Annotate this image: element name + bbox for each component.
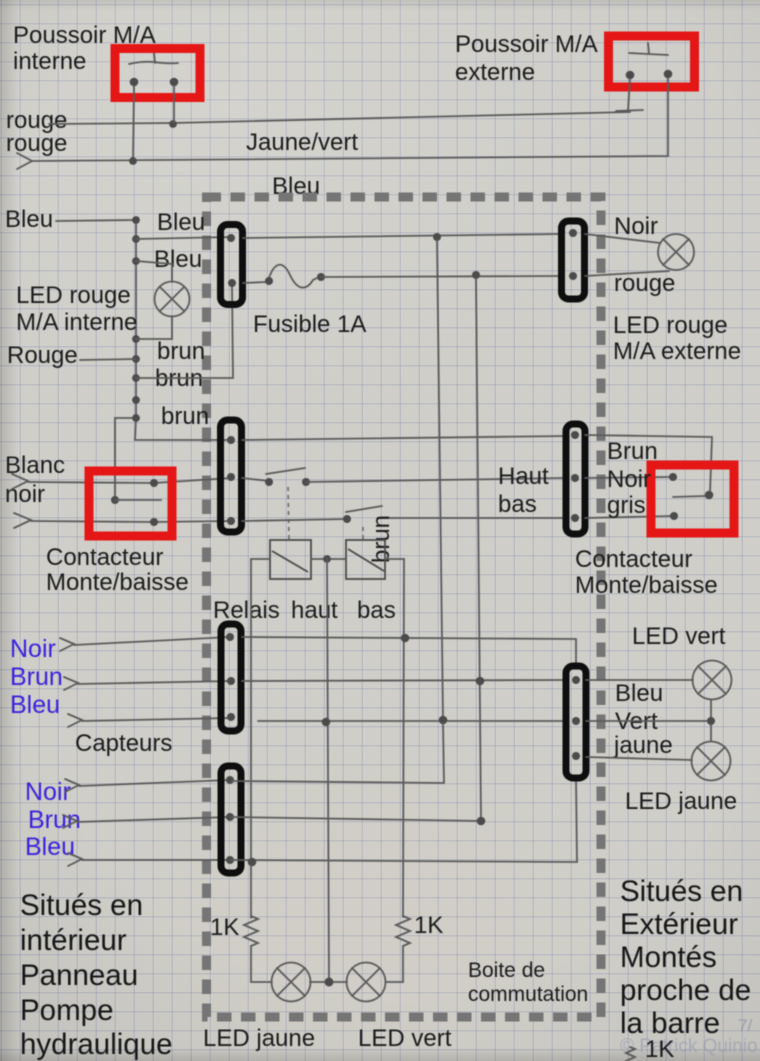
wire noir to contactor K1 and connector J3 pin3 (14, 513, 231, 528)
wire Blanc to contactor K1 and connector J3 pin2 (12, 474, 231, 489)
contactor K1 pin bottom (150, 518, 158, 526)
svg-text:jaune: jaune (613, 732, 673, 759)
svg-text:M/A interne: M/A interne (16, 309, 137, 336)
pin J7-2 (572, 717, 580, 725)
contactor K1 pin top (150, 479, 158, 487)
svg-text:Bleu: Bleu (615, 680, 663, 707)
label: LED rouge M/A interne (16, 282, 137, 336)
pin J3-2 (227, 473, 235, 481)
pushbutton S1 (interne) (129, 53, 178, 86)
connector J5 (lower left 1, 3 pins) (221, 624, 241, 731)
wire row: J3 pin2 to switch SW1 (242, 478, 269, 481)
pin J7-3 (572, 752, 580, 760)
svg-text:LED vert: LED vert (632, 623, 726, 650)
wire V1: vertical from top row to lower row (437, 240, 443, 719)
node V2 bottom (477, 817, 486, 826)
node fuse-row branch (vertical V1 top) (433, 233, 441, 241)
node fuse-row branch (vertical V2 top) (472, 271, 480, 279)
vertical bus wire left of connector J1 (115, 220, 231, 500)
lamp L2 LED rouge M/A externe (658, 234, 694, 270)
connector J4 (middle right, 3 pins) (566, 424, 585, 534)
svg-text:Contacteur: Contacteur (46, 544, 163, 571)
red highlight box around contactor K2 (651, 465, 734, 533)
svg-text:Bleu: Bleu (157, 209, 205, 236)
svg-text:Bleu: Bleu (154, 246, 202, 273)
wire row: to J7 pin2 (258, 720, 564, 722)
pin J4-2 (571, 474, 579, 482)
wire relay KA1 left pin down to 1K resistor R1 (251, 559, 270, 918)
wire J2 pin1 to lamp L2 (585, 234, 660, 243)
wire row: J5 pin2 over to J7 pin1 lower row (242, 680, 564, 681)
node bus lamp return (132, 335, 140, 343)
contactor K2 pin bottom (670, 512, 678, 520)
switch SW1 haut contacts (265, 468, 310, 486)
pin J2-2 (569, 272, 577, 280)
wire Rouge to bus (80, 359, 136, 360)
wire V2: vertical from fuse row to lower rows (476, 278, 481, 820)
svg-text:Noir: Noir (614, 213, 658, 240)
svg-text:LED rouge: LED rouge (16, 282, 131, 309)
red highlight box around contactor K1 (89, 471, 172, 536)
svg-text:Contacteur: Contacteur (575, 546, 692, 573)
svg-text:Brun: Brun (10, 663, 63, 691)
pin J1-2 (228, 279, 236, 287)
wire capteur1 Bleu to J5 pin3 (68, 714, 231, 727)
svg-text:rouge: rouge (6, 130, 67, 157)
node on wire rouge at S1 right pin (169, 120, 177, 128)
wire relay KA1/KA2 joint pin down the middle (311, 555, 346, 981)
pin J2-1 (569, 229, 577, 237)
svg-text:Rouge: Rouge (7, 342, 78, 369)
node bus top (132, 216, 140, 224)
svg-text:interne: interne (13, 48, 86, 75)
svg-text:1K: 1K (210, 914, 239, 941)
contactor K1 common pin and wire (111, 496, 161, 504)
svg-text:Jaune/vert: Jaune/vert (246, 129, 358, 156)
svg-text:7/: 7/ (738, 1016, 752, 1035)
label: Contacteur Monte/baisse (left) (46, 544, 189, 596)
wire J4 pin2 to contactor K2 top pin (585, 477, 673, 478)
wire J4 pin1 right and down to contactor K2 (585, 435, 712, 493)
wire SW1 to J4 pin2 (306, 478, 565, 482)
wire relay KA2 right pin down to 1K resistor R2 (385, 559, 404, 917)
svg-text:haut: haut (291, 597, 338, 624)
relay KA2 bas (346, 540, 385, 579)
mechanical link SW1 to relay KA1 (288, 487, 289, 540)
wire segment S1 left pin down (133, 86, 134, 161)
svg-text:1K: 1K (645, 1036, 674, 1061)
svg-text:noir: noir (5, 481, 45, 508)
node V1 end on row 721 (439, 716, 448, 725)
node bus jog (132, 414, 140, 422)
pin J3-3 (227, 517, 235, 525)
svg-text:Bleu: Bleu (25, 833, 75, 861)
wire J7 pin2 right to lamps L3/L4 junction (586, 700, 715, 741)
svg-text:Situés en: Situés en (620, 875, 743, 908)
svg-text:© Patrick Quinio: © Patrick Quinio (620, 1036, 758, 1057)
mechanical link SW2 to relay KA2 (362, 527, 364, 540)
svg-text:LED jaune: LED jaune (625, 788, 737, 815)
svg-text:Montés: Montés (620, 941, 717, 974)
svg-text:Monte/baisse: Monte/baisse (46, 569, 189, 596)
svg-text:LED vert: LED vert (358, 1025, 452, 1052)
node V2 on row 681 (476, 677, 485, 686)
wire Bleu row2 to connector J1 pin1 (136, 237, 231, 239)
wire SW2 to J4 pin3 (378, 517, 565, 519)
pin J3-1 (227, 436, 235, 444)
label: Relais haut bas (213, 597, 396, 624)
svg-text:LED rouge: LED rouge (613, 312, 728, 339)
label: Boite de commutation (468, 959, 588, 1006)
svg-text:Haut: Haut (498, 463, 549, 490)
label: Poussoir M/A interne (13, 22, 156, 75)
svg-text:Bleu: Bleu (10, 691, 60, 719)
watermark (620, 1016, 758, 1057)
svg-text:Monte/baisse: Monte/baisse (575, 572, 718, 599)
svg-text:Bleu: Bleu (5, 206, 53, 233)
node bus Rouge row (132, 355, 140, 363)
connector J1 (top left, 2 pins) (221, 225, 243, 305)
wire capteur1 Brun to J5 pin2 (64, 677, 231, 690)
wire between lamps L5 and L6 (310, 978, 347, 987)
wire row: J3 pin3 to switch SW2 (242, 519, 347, 521)
svg-text:Noir: Noir (10, 635, 56, 663)
red highlight box around S2 (609, 36, 695, 87)
svg-text:Situés en: Situés en (20, 889, 143, 922)
svg-text:proche de: proche de (620, 974, 751, 1007)
lamp L1 LED rouge M/A interne (155, 282, 190, 317)
contactor K2 common pin and wire (673, 491, 713, 500)
dashed boundary of Boite de commutation (207, 197, 602, 1017)
wire jaune/vert net from left arrow to S2 right pin (17, 78, 668, 169)
wire J7 pin1 to lamp L3 (586, 679, 693, 681)
svg-text:Panneau: Panneau (20, 959, 138, 992)
node V relay2 on row 637 (401, 634, 410, 643)
svg-text:Brun: Brun (607, 438, 658, 465)
pin J4-1 (571, 431, 579, 439)
wire capteur1 Noir to J5 pin1 (60, 637, 230, 651)
svg-text:bas: bas (357, 597, 396, 624)
wire row: J6 pin3 right then up to J7 pin3 (231, 779, 577, 862)
wire lamp L1 bottom to bus (136, 316, 172, 339)
lamp L5 LED jaune (bottom) (272, 963, 311, 1002)
svg-text:Boite de: Boite de (468, 959, 545, 982)
svg-text:1K: 1K (414, 912, 443, 939)
wire J2 pin2 to lamp L2 bottom (585, 271, 669, 276)
svg-text:Noir: Noir (607, 466, 651, 493)
wire capteur2 Brun to J6 pin2 (63, 815, 230, 828)
node resistor R1 branch on row 862 (248, 858, 257, 867)
svg-text:Pompe: Pompe (20, 994, 113, 1027)
pin J5-1 (226, 633, 234, 641)
svg-text:LED jaune: LED jaune (203, 1025, 315, 1052)
wire J4 pin3 to contactor K2 bottom pin (585, 516, 674, 518)
wire capteur2 Noir to J6 pin1 (65, 779, 230, 792)
svg-text:Poussoir M/A: Poussoir M/A (455, 31, 598, 58)
svg-text:externe: externe (455, 59, 535, 86)
pin J1-1 (227, 234, 235, 242)
label: Poussoir M/A externe (455, 31, 598, 86)
connector J7 (lower right, 3 pins) (566, 666, 586, 778)
wire row: J6 pin1 right then up to row 721 (232, 723, 444, 783)
node relay joint vertical on row 721 (322, 718, 331, 727)
wire row: J1 pin1 to J2 pin1 (243, 234, 561, 238)
wire row: J5 pin1 over to J7 pin1 (242, 637, 576, 668)
svg-text:M/A externe: M/A externe (613, 338, 741, 365)
wire brun row2: connector J1 pin2 down and left to bus (136, 285, 233, 378)
switch SW2 bas contact (343, 506, 382, 523)
svg-text:Extérieur: Extérieur (620, 908, 738, 941)
lamp L4 LED jaune (right) (692, 742, 731, 781)
resistor R3 1K (bottom right) (626, 1047, 635, 1061)
svg-text:brun: brun (368, 515, 395, 563)
pin J5-2 (227, 677, 235, 685)
node bus Bleu row2 (132, 235, 140, 243)
label: Situes en interieur Panneau Pompe hydraulique (20, 889, 173, 1061)
svg-text:gris: gris (607, 492, 646, 519)
connector J3 (middle left, 3 pins) (221, 420, 242, 532)
connector J2 (top right, 2 pins) (562, 221, 585, 299)
wire row: J6 pin2 to V2 bottom (231, 817, 481, 821)
wire Bleu incoming to bus (56, 220, 136, 221)
contactor K2 pin top (669, 473, 677, 481)
svg-text:commutation: commutation (468, 983, 588, 1006)
label: Situes en Exterieur Montes proche de la barre (620, 875, 751, 1040)
wire row: J3 pin1 across to J4 pin1 (242, 436, 565, 440)
pin J6-2 (226, 813, 234, 821)
red highlight box around S1 (115, 49, 200, 98)
wire J7 pin3 to lamp L4 (586, 757, 692, 760)
pin J4-3 (571, 514, 579, 522)
svg-text:Fusible 1A: Fusible 1A (253, 311, 366, 338)
resistor R1 1K (244, 916, 272, 982)
node bus Bleu row3 (132, 257, 140, 265)
resistor R2 1K (386, 916, 410, 982)
lamp L3 LED vert (693, 661, 732, 700)
svg-text:hydraulique: hydraulique (20, 1028, 173, 1061)
svg-text:brun: brun (157, 338, 205, 365)
relay KA1 haut (270, 540, 311, 579)
wire Bleu row3 to lamp L1 top (136, 261, 172, 282)
node on jaune/vert wire at S1 left pin (129, 157, 137, 165)
pin J5-3 (227, 713, 235, 721)
node bus lower (132, 396, 140, 404)
node bus brun row (132, 374, 140, 382)
wire rouge net from S1 right pin to S2 left pin (49, 79, 643, 124)
svg-text:Noir: Noir (25, 778, 71, 806)
pin J6-1 (226, 776, 234, 784)
pin J7-1 (572, 676, 580, 684)
fuse F1 1A with wire to J2 pin2 (243, 265, 561, 288)
wire capteur2 Bleu to J6 pin3 (68, 853, 230, 866)
svg-text:bas: bas (498, 491, 537, 518)
svg-text:brun: brun (161, 403, 209, 430)
lamp L6 LED vert (bottom) (347, 963, 386, 1002)
wire segment S1 right pin down (173, 86, 175, 123)
svg-text:Capteurs: Capteurs (75, 730, 172, 757)
pin J6-3 (226, 856, 234, 864)
label: LED rouge M/A externe (613, 312, 741, 365)
svg-text:Relais: Relais (213, 597, 280, 624)
pushbutton S2 (externe) (626, 43, 673, 79)
connector J6 (lower left 2, 3 pins) (221, 766, 241, 873)
svg-text:intérieur: intérieur (20, 924, 127, 957)
label: Contacteur Monte/baisse (right) (575, 546, 718, 599)
